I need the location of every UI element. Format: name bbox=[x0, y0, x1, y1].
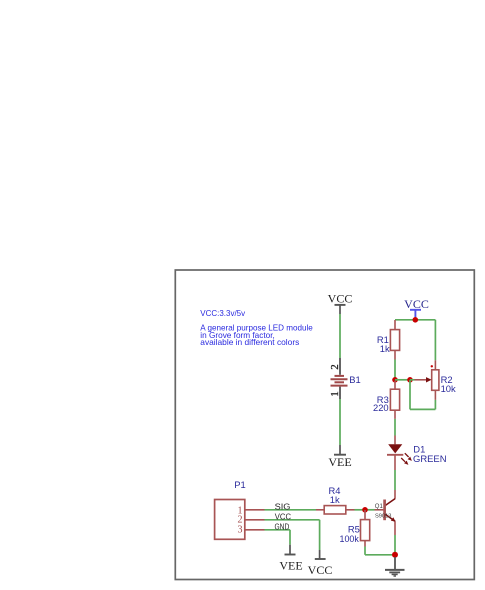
svg-text:SIG: SIG bbox=[275, 501, 291, 511]
svg-text:VCC: VCC bbox=[275, 511, 291, 521]
svg-text:100k: 100k bbox=[340, 533, 360, 544]
svg-text:VEE: VEE bbox=[279, 559, 302, 573]
svg-text:GREEN: GREEN bbox=[413, 453, 447, 464]
svg-text:available in different colors: available in different colors bbox=[200, 337, 299, 347]
svg-text:2: 2 bbox=[329, 364, 341, 370]
svg-text:3: 3 bbox=[238, 525, 243, 536]
svg-text:S9013: S9013 bbox=[375, 513, 391, 519]
svg-text:1: 1 bbox=[329, 391, 341, 397]
svg-text:10k: 10k bbox=[441, 383, 456, 394]
svg-text:1k: 1k bbox=[380, 343, 390, 354]
svg-text:VCC:3.3v/5v: VCC:3.3v/5v bbox=[200, 308, 246, 318]
svg-text:VCC: VCC bbox=[308, 563, 333, 577]
svg-text:1k: 1k bbox=[330, 494, 340, 505]
svg-text:220: 220 bbox=[373, 402, 389, 413]
svg-text:GND: GND bbox=[275, 521, 290, 531]
svg-text:VEE: VEE bbox=[328, 455, 351, 469]
svg-text:B1: B1 bbox=[349, 374, 360, 385]
svg-text:VCC: VCC bbox=[404, 297, 429, 311]
svg-text:P1: P1 bbox=[234, 479, 245, 490]
svg-text:Q1: Q1 bbox=[375, 504, 384, 510]
svg-text:VCC: VCC bbox=[328, 291, 353, 305]
